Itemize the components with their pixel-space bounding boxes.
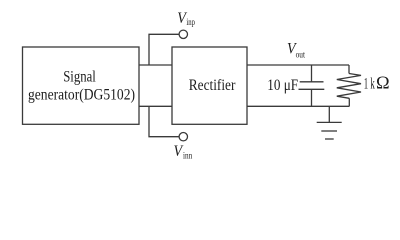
label: Vinn [174, 143, 193, 161]
svg-text:Ω: Ω [376, 73, 390, 93]
svg-text:inp: inp [186, 18, 195, 28]
svg-text:V: V [174, 143, 184, 160]
svg-text:10 μF: 10 μF [267, 77, 298, 94]
wire: lower interconnect (generator to rectifier) [139, 105, 172, 107]
wire: Vinn branch [149, 106, 179, 136]
box: Rectifier [172, 47, 247, 124]
svg-text:Signal: Signal [63, 69, 96, 86]
svg-text:out: out [296, 51, 306, 61]
node Vinp terminal [179, 30, 187, 38]
capacitor C 10uF [299, 65, 325, 106]
svg-text:generator(DG5102): generator(DG5102) [28, 87, 135, 104]
wire: Vinp branch [149, 34, 179, 65]
ground [317, 106, 342, 139]
resistor R 1kOhm [337, 65, 361, 106]
label: Signal generator(DG5102) [28, 69, 135, 104]
wire: upper interconnect (generator to rectifier) [139, 64, 172, 66]
wire: bottom rail [247, 105, 349, 107]
svg-text:inn: inn [183, 151, 192, 161]
label: Vout [287, 40, 305, 60]
svg-text:Rectifier: Rectifier [189, 77, 236, 94]
box: Signal generator (DG5102) [23, 47, 140, 124]
svg-text:1 k: 1 k [364, 76, 375, 93]
label: 1 kOhm [364, 73, 390, 93]
node Vinn terminal [179, 133, 187, 141]
wire: output top rail (Vout net) [247, 64, 349, 66]
label: Vinp [177, 10, 195, 28]
